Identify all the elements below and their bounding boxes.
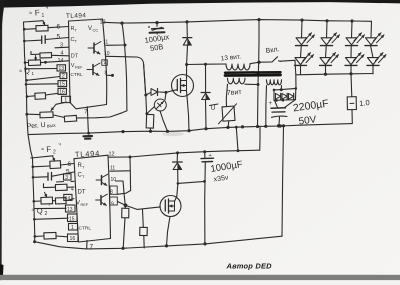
svg-text:F: F	[46, 145, 52, 154]
svg-text:13: 13	[59, 66, 65, 72]
svg-text:DT: DT	[78, 190, 86, 196]
svg-text:5: 5	[57, 34, 61, 41]
svg-text:вых: вых	[47, 123, 57, 130]
svg-text:4: 4	[71, 187, 74, 193]
svg-text:Автор DED: Автор DED	[226, 262, 273, 271]
svg-text:Q: Q	[37, 206, 44, 215]
svg-text:14: 14	[65, 195, 71, 201]
svg-text:CTRL: CTRL	[79, 226, 92, 232]
svg-text:7: 7	[90, 244, 94, 251]
svg-text:2: 2	[45, 211, 48, 217]
svg-text:≈: ≈	[29, 11, 32, 17]
svg-text:50V: 50V	[298, 114, 317, 127]
svg-text:7вит: 7вит	[227, 89, 243, 97]
svg-text:15: 15	[59, 82, 65, 88]
svg-text:CC: CC	[93, 28, 99, 33]
svg-text:≈: ≈	[41, 147, 44, 153]
svg-text:9: 9	[111, 202, 114, 208]
svg-text:16: 16	[59, 89, 65, 95]
svg-text:F: F	[35, 8, 41, 17]
svg-text:12: 12	[100, 20, 106, 26]
svg-text:TL494: TL494	[75, 149, 101, 159]
svg-text:V: V	[88, 26, 92, 32]
svg-text:2: 2	[53, 150, 56, 156]
svg-text:Q: Q	[24, 68, 30, 75]
svg-text:≈: ≈	[19, 69, 22, 75]
svg-text:14: 14	[58, 58, 64, 64]
svg-text:1: 1	[64, 98, 67, 104]
svg-text:4: 4	[61, 51, 64, 57]
svg-text:2: 2	[62, 74, 65, 80]
svg-text:CTRL: CTRL	[71, 72, 83, 77]
svg-text:REF: REF	[75, 66, 83, 70]
svg-text:6: 6	[57, 24, 61, 31]
svg-text:6: 6	[68, 161, 72, 168]
svg-text:': '	[49, 205, 50, 211]
svg-text:+: +	[269, 101, 273, 107]
svg-text:13: 13	[67, 207, 73, 213]
svg-text:1: 1	[71, 225, 74, 231]
svg-text:≈: ≈	[32, 208, 35, 214]
svg-text:V: V	[76, 201, 80, 207]
svg-text:DT: DT	[71, 54, 79, 60]
svg-text:11: 11	[103, 40, 108, 46]
svg-text:1.0: 1.0	[359, 98, 370, 108]
svg-text:TL494: TL494	[66, 12, 87, 20]
svg-text:1: 1	[42, 13, 45, 19]
svg-text:+: +	[209, 153, 212, 159]
svg-text:15: 15	[69, 216, 75, 222]
svg-text:16: 16	[70, 236, 76, 242]
svg-text:REF: REF	[81, 203, 89, 207]
svg-text:10: 10	[111, 177, 117, 183]
svg-text:3: 3	[65, 175, 68, 181]
